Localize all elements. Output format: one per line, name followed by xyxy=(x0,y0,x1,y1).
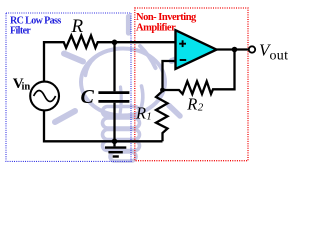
svg-text:out: out xyxy=(270,48,289,63)
svg-text:C: C xyxy=(81,86,95,108)
svg-text:2: 2 xyxy=(198,102,204,114)
svg-text:R: R xyxy=(186,95,197,114)
svg-text:Filter: Filter xyxy=(10,26,31,37)
svg-text:R: R xyxy=(71,16,84,37)
svg-text:Non- Inverting: Non- Inverting xyxy=(136,12,197,23)
svg-text:1: 1 xyxy=(146,111,152,123)
svg-text:Amplifier: Amplifier xyxy=(136,23,176,34)
svg-text:in: in xyxy=(22,82,31,93)
svg-text:R: R xyxy=(135,104,146,123)
